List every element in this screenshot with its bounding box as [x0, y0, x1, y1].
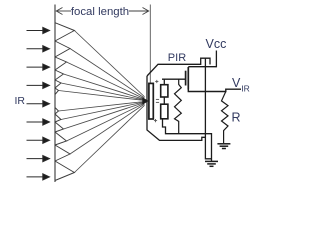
PIR can right edge wire down to ground bus [205, 58, 211, 159]
wire: dimension extension down to sensing element [149, 5, 151, 84]
svg-text:IR: IR [15, 95, 26, 107]
wire: Q1 drain to Vcc [188, 66, 216, 68]
ground (PIR case) [205, 161, 218, 166]
ground (below R) [217, 144, 230, 149]
polarity marks between elements [156, 99, 159, 102]
svg-text:V: V [232, 76, 241, 90]
wire: Q1 source to VIR output [188, 89, 241, 91]
focal point arrowhead at sensing element [142, 97, 149, 104]
svg-text:PIR: PIR [168, 52, 186, 64]
wire: top node (elements, resistor, gate) [162, 78, 186, 80]
dual element D1 (top) [161, 85, 168, 97]
transistor Q1 gate bar [185, 71, 187, 86]
incoming IR radiation arrows [27, 27, 50, 180]
gate resistor R1 (inside can) [175, 79, 182, 134]
dimension line (focal length) with arrowheads [56, 8, 149, 15]
wire: bottom node to ground [163, 119, 212, 161]
wire: Vcc lead [215, 51, 217, 68]
fresnel lens flat face (vertical line) [54, 5, 56, 183]
polarity mark + (bottom) [154, 119, 157, 122]
PIR can outline: chamfer, top edge, Vcc pin tab [147, 58, 210, 76]
svg-text:R: R [232, 111, 241, 125]
svg-text:focal length: focal length [71, 6, 129, 18]
resistor R [222, 92, 229, 144]
wire: element D1 top lead [163, 79, 165, 85]
pyroelectric sensing element window bar [149, 83, 153, 119]
PIR can left edge and case wire to ground jog [147, 76, 205, 140]
fresnel lens grooves (sawtooth profile) [55, 23, 74, 181]
transistor Q1 channel bar [187, 67, 189, 90]
svg-text:IR: IR [241, 84, 250, 94]
dual element D2 (bottom) [161, 104, 168, 119]
polarity mark + (top) [155, 80, 158, 83]
wire: series link between elements [163, 97, 165, 104]
converging IR rays to focal point [59, 31, 145, 173]
svg-text:Vcc: Vcc [206, 37, 227, 51]
